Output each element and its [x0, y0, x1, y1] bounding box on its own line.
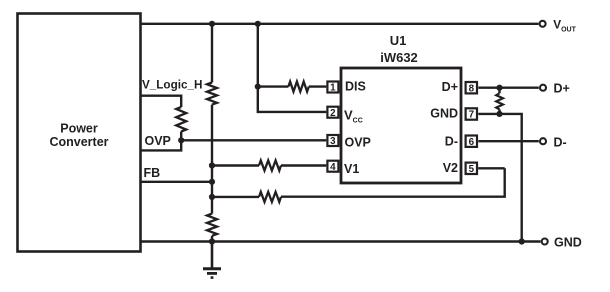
svg-text:6: 6 [469, 137, 475, 148]
resistor R on DIS line [288, 82, 308, 92]
node OVP junction [178, 137, 184, 143]
svg-text:7: 7 [469, 110, 475, 121]
wire DIS left segment [258, 85, 289, 87]
svg-text:U1: U1 [390, 33, 407, 48]
pin 8 box [466, 82, 477, 94]
svg-text:1: 1 [330, 83, 336, 94]
wire pin 8 to D+ terminal [478, 86, 539, 88]
svg-text:VOUT: VOUT [553, 17, 576, 33]
svg-text:Power: Power [60, 122, 98, 136]
wire pin 6 to D- terminal [478, 140, 539, 142]
wire vertical x212 middle [211, 105, 213, 214]
wire OVP stub [140, 134, 181, 151]
wire V1 right segment to pin 4 [281, 164, 326, 166]
wire resistor to OVP node [180, 132, 182, 141]
svg-text:D-: D- [445, 134, 458, 148]
terminal VOUT [540, 17, 577, 33]
resistor R on V1 line [259, 161, 281, 171]
terminal D- [540, 135, 567, 149]
wire DIS right segment to pin 1 [309, 85, 327, 87]
svg-text:D-: D- [554, 135, 567, 149]
svg-text:iW632: iW632 [380, 50, 418, 65]
node junction top wire x257.8 [255, 21, 261, 27]
svg-text:Converter: Converter [49, 135, 108, 149]
svg-text:D+: D+ [554, 81, 570, 95]
terminal GND [542, 235, 582, 249]
svg-text:GND: GND [430, 106, 458, 120]
resistor R upper on x212 [207, 83, 217, 105]
terminal D+ [540, 81, 570, 95]
svg-text:V_Logic_H: V_Logic_H [142, 79, 202, 92]
wire GND bottom [140, 240, 541, 242]
wire V2 return path [281, 168, 505, 196]
pin 2 box [327, 107, 338, 119]
node junction top wire x212 [209, 21, 215, 27]
svg-text:4: 4 [330, 162, 336, 173]
svg-text:GND: GND [554, 235, 582, 249]
wire vertical x257.8 [258, 24, 327, 112]
wire FB [140, 166, 212, 182]
resistor R lower on x212 [207, 214, 217, 236]
wire V1 left segment [212, 164, 259, 166]
pin 7 box [466, 108, 477, 120]
op-amp U1 iW632 body [341, 33, 461, 183]
node D+ resistor bottom [496, 111, 502, 117]
wire Vout top [140, 23, 539, 25]
resistor R on V2 line [259, 192, 281, 202]
svg-text:3: 3 [330, 136, 336, 147]
resistor R on x181 [176, 107, 186, 132]
svg-text:V1: V1 [344, 162, 359, 176]
resistor R on D+ line [496, 93, 503, 109]
node V2 junction [209, 194, 215, 200]
svg-text:5: 5 [469, 164, 475, 175]
pin 1 box [327, 82, 338, 94]
pin 4 box [327, 161, 338, 173]
svg-text:V2: V2 [443, 161, 458, 175]
svg-text:OVP: OVP [145, 134, 171, 148]
node DIS junction [255, 84, 261, 90]
wire V2 left segment [212, 196, 259, 198]
svg-text:VCC: VCC [344, 107, 363, 124]
svg-text:8: 8 [469, 83, 475, 94]
node D+ resistor top [496, 85, 502, 91]
svg-text:D+: D+ [442, 80, 458, 94]
svg-text:2: 2 [330, 108, 336, 119]
svg-text:FB: FB [144, 166, 161, 180]
pin 5 box [466, 163, 477, 175]
svg-text:DIS: DIS [345, 80, 366, 94]
ground [203, 242, 221, 278]
wire V_Logic_H stub [140, 79, 202, 108]
wire pin5 stub [478, 167, 505, 169]
node GND vertical junction [519, 238, 525, 244]
node V1 junction [209, 162, 215, 168]
pin 3 box [327, 135, 338, 147]
wire pin 7 to GND vertical [478, 114, 521, 242]
node GND x212 junction [209, 238, 215, 244]
pin 6 box [466, 136, 477, 148]
Power Converter box [18, 14, 141, 252]
wire resistor stubs D+ [498, 88, 500, 114]
node FB junction [209, 179, 215, 185]
svg-text:OVP: OVP [345, 135, 371, 149]
wire vertical x212 upper [211, 24, 213, 83]
wire vertical x212 bottom [211, 236, 213, 242]
wire OVP to pin 3 [181, 139, 326, 141]
